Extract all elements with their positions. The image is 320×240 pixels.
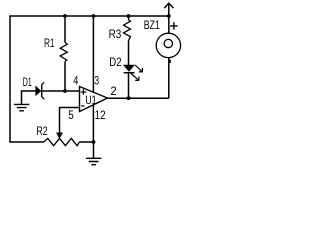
- svg-text:5: 5: [68, 110, 74, 122]
- svg-text:D1: D1: [23, 77, 32, 89]
- svg-text:4: 4: [73, 75, 79, 87]
- svg-text:R2: R2: [36, 126, 47, 138]
- svg-text:12: 12: [95, 110, 106, 122]
- svg-text:BZ1: BZ1: [144, 20, 160, 32]
- svg-text:D2: D2: [109, 57, 121, 69]
- svg-text:R1: R1: [44, 38, 55, 50]
- svg-text:2: 2: [110, 86, 116, 98]
- svg-text:U1: U1: [85, 95, 97, 107]
- svg-text:3: 3: [94, 75, 99, 87]
- svg-text:R3: R3: [109, 29, 122, 41]
